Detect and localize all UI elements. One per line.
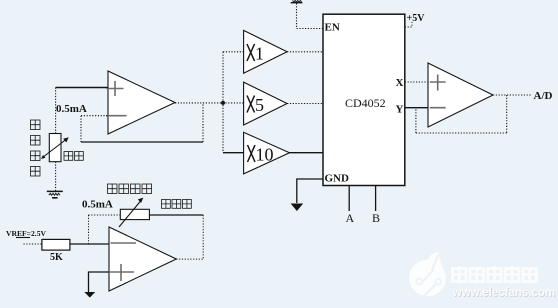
wire VREF to R1 (24, 243, 42, 245)
label 下共摸 (162, 200, 192, 209)
label 共摸 (64, 152, 83, 161)
wire bus to x10 input (223, 152, 244, 154)
wire U2 feedback bottom (81, 141, 203, 143)
wire pin A (348, 186, 350, 212)
wire R1 to U4 inverting input (70, 243, 109, 245)
wire U2 feedback right leg (202, 103, 204, 143)
amplifier A3 x10 (244, 132, 290, 174)
wire U2 feedback left leg (80, 116, 82, 142)
wire U4 output (176, 258, 203, 260)
wire EN to ground (297, 3, 324, 29)
thermistor RT1 (41, 134, 69, 162)
svg-text:www.elecfans.com: www.elecfans.com (452, 287, 555, 299)
ground G1 (47, 191, 63, 197)
wire A1 output (287, 51, 323, 53)
power +5V (405, 13, 425, 27)
svg-text:5: 5 (255, 95, 264, 115)
wire thermistor to ground (55, 162, 57, 191)
svg-text:X: X (396, 77, 404, 89)
svg-text:CD4052: CD4052 (345, 96, 386, 110)
op-amp U2 (left input amplifier) (108, 71, 175, 134)
svg-text:Y: Y (396, 103, 404, 115)
wire bus to x1 input (223, 51, 244, 53)
svg-text:+5V: +5V (407, 13, 426, 24)
wire trimmer feedback leg (202, 215, 204, 259)
wire to trimmer left (89, 214, 121, 216)
wire pin B (375, 186, 377, 212)
resistor R1 5K (42, 239, 70, 250)
svg-text:0.5mA: 0.5mA (56, 103, 87, 115)
label 微调电阻 (108, 184, 152, 194)
svg-text:5K: 5K (50, 252, 63, 263)
label 热敏电阻 (vertical) (31, 120, 41, 176)
wire X output (405, 81, 428, 83)
wire U3 feedback left leg (415, 108, 417, 133)
svg-text:EN: EN (325, 22, 340, 34)
amplifier A2 x5 (244, 82, 288, 125)
U3 plus input symbol (430, 75, 446, 91)
wire trimmer right (149, 214, 203, 216)
wire U4 noninverting input (89, 272, 110, 292)
wire A2 output (287, 103, 323, 105)
op-amp U4 (reference amplifier) (109, 227, 176, 291)
U2 plus input symbol (107, 81, 124, 96)
wire U3 output to A/D (493, 94, 532, 96)
wire thermistor top to input (55, 88, 57, 134)
U2 minus input symbol (106, 115, 127, 117)
wire Y output (405, 107, 428, 109)
wire U1 GND pin (297, 179, 323, 203)
amplifier A1 x1 (244, 30, 288, 73)
U3 minus input symbol (430, 107, 446, 109)
wire U3 feedback bottom (416, 132, 507, 134)
IC U1 CD4052 (323, 14, 405, 185)
VREF terminal (16, 237, 30, 239)
ground G4 (arrow style) (291, 204, 304, 212)
wire U2 inverting input (81, 115, 108, 117)
svg-text:0.5mA: 0.5mA (82, 199, 113, 211)
svg-text:B: B (372, 211, 380, 225)
svg-text:1: 1 (255, 44, 264, 64)
U4 minus input symbol (111, 242, 137, 244)
svg-text:A: A (346, 211, 355, 225)
node N1 junction (221, 101, 225, 105)
watermark brand glyphs (453, 266, 537, 284)
U4 plus input symbol (108, 264, 134, 281)
wire U3 feedback right leg (506, 95, 508, 133)
svg-text:10: 10 (256, 145, 274, 165)
svg-text:GND: GND (325, 173, 350, 185)
ground G5 (top, flipped) (291, 0, 303, 2)
ground G3 (arrow style) (84, 292, 95, 298)
wire U2 noninverting input (56, 87, 108, 89)
watermark logo circle (409, 252, 446, 296)
wire U2 output to x5 input (175, 102, 244, 104)
op-amp U3 (output buffer) (428, 63, 493, 127)
trimmer RP1 (119, 198, 149, 227)
wire distribution bus (222, 52, 224, 153)
wire junction to trimmer row (88, 215, 90, 244)
svg-text:VREF=2.5V: VREF=2.5V (6, 229, 46, 238)
svg-text:A/D: A/D (534, 90, 553, 102)
wire A3 output (290, 152, 324, 154)
